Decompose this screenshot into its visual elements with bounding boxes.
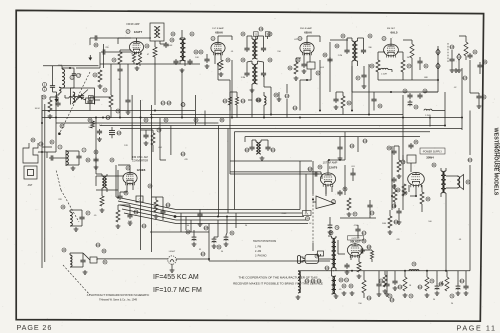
- circled ref 95: [274, 93, 278, 97]
- circled ref 66: [426, 197, 430, 201]
- circled ref 31: [296, 58, 300, 62]
- capacitor C13: [344, 48, 366, 54]
- svg-text:POWER SUPPLY: POWER SUPPLY: [423, 151, 442, 154]
- circled ref 15: [112, 58, 116, 62]
- oscillator coil L4: [96, 174, 107, 188]
- svg-text:PAGE 11: PAGE 11: [457, 324, 497, 333]
- wire: bus y125: [100, 125, 445, 127]
- circled ref 103: [201, 252, 206, 256]
- wire: rail corner x218: [217, 126, 219, 217]
- wire: T1 down: [155, 41, 160, 47]
- label FM DET: [387, 28, 396, 30]
- wire: bus fan horizontal 2: [176, 212, 302, 214]
- svg-text:C: C: [139, 197, 141, 201]
- electrolytic C22: [186, 230, 196, 241]
- filter choke L8: [409, 270, 419, 271]
- resistor R10 V7 cathode: [357, 262, 361, 272]
- junction dot 5: [181, 117, 183, 119]
- wire: bus y117: [42, 117, 462, 119]
- AM IF transformer T8: [256, 142, 261, 154]
- wire: V5 grid left: [96, 176, 124, 186]
- resistor R16: [425, 277, 429, 291]
- wire: drop x227: [226, 217, 228, 234]
- wire: left col to bus: [55, 123, 57, 152]
- wire: right edge drop: [470, 93, 479, 104]
- circled ref 27: [268, 32, 272, 36]
- svg-text:FM OSC. AM: FM OSC. AM: [132, 155, 147, 159]
- circled ref 131: [317, 279, 322, 283]
- circled ref 86: [220, 118, 224, 122]
- phono plug: [298, 256, 306, 264]
- wire: left column x56: [55, 95, 57, 123]
- circled ref 117: [362, 231, 367, 235]
- ground at T6: [334, 294, 339, 298]
- wire: T2 tops: [180, 30, 185, 40]
- wire: B+ choke bus y271: [298, 270, 470, 272]
- wire: x392 col: [391, 146, 393, 210]
- ground at C46: [128, 221, 133, 225]
- ground at C32: [456, 291, 461, 295]
- wire: rail y131.8: [234, 131, 430, 133]
- electrolytic C24: [224, 231, 234, 241]
- wire: C58 leads: [451, 50, 453, 68]
- resistor R23: [341, 96, 345, 108]
- wire: V6 plate up: [328, 160, 345, 172]
- svg-text:1M: 1M: [407, 57, 410, 59]
- junction dot 13: [429, 117, 431, 119]
- wire: B+ bus y110: [42, 110, 195, 112]
- wire: R35 bot: [371, 259, 373, 262]
- wire: ant to loop: [55, 150, 66, 166]
- wire: C61 leads: [352, 168, 354, 181]
- wire: bus y123: [56, 122, 218, 124]
- wire: L12 leads: [378, 70, 392, 73]
- junction dot gang: [58, 132, 61, 135]
- capacitor C20: [79, 211, 90, 221]
- value label .02 #28: [309, 223, 313, 225]
- value label 20 #26: [245, 225, 248, 227]
- resistor R28: [228, 97, 231, 105]
- label FM RF AMP: [126, 23, 139, 26]
- circled ref 142: [256, 98, 261, 102]
- FM antenna coil assembly: [71, 88, 95, 105]
- output transformer T7: [441, 171, 446, 193]
- capacitor C43: [477, 60, 487, 69]
- capacitor C59: [337, 145, 342, 151]
- value label 470 #36: [396, 239, 400, 241]
- wire: bus fan diagonal 1: [116, 197, 176, 210]
- wire: mid column x151: [151, 105, 153, 252]
- wire: x445 top col: [444, 111, 446, 127]
- junction dot 35: [217, 216, 219, 218]
- wire: x271 drop: [270, 87, 272, 115]
- svg-text:6BA6: 6BA6: [304, 31, 312, 35]
- capacitor C46: [127, 213, 132, 219]
- circled ref 25: [226, 58, 230, 62]
- svg-text:IF=10.7 MC FM: IF=10.7 MC FM: [153, 287, 202, 294]
- resistor R7: [401, 60, 405, 72]
- label 50L6GT V7: [350, 239, 366, 243]
- capacitor C54: [97, 129, 102, 135]
- circled ref 74: [450, 294, 454, 298]
- dashed switch link: [312, 194, 314, 243]
- note: cooperation text: [233, 276, 323, 286]
- wire: V5 bottom leads: [120, 184, 133, 194]
- circled ref 58: [306, 217, 310, 221]
- wire: bottom ladder tops: [385, 271, 466, 284]
- junction dot 24: [312, 199, 314, 201]
- oscillator coil L5: [70, 212, 72, 226]
- junction dot 14: [444, 125, 446, 127]
- junction dot 30: [263, 117, 265, 119]
- ground at R10: [357, 274, 362, 278]
- wire: x252 to bus: [251, 100, 253, 118]
- resistor R20: [151, 133, 155, 145]
- circled ref 127: [161, 101, 166, 105]
- label 1ST FM IF AMP: [212, 27, 224, 30]
- ground at A2: [457, 68, 462, 72]
- boxed part C7A: [136, 196, 143, 202]
- value label 50 #40: [221, 251, 224, 253]
- wire: x230 col mid: [229, 80, 231, 174]
- resistor R3 cathode: [118, 52, 122, 64]
- vertical title: WESTINGHOUSE MODELS: [492, 128, 498, 196]
- ground at C58: [450, 68, 455, 72]
- wire: V6 cathode: [326, 186, 332, 194]
- circled ref 132: [367, 296, 372, 300]
- ground at T8: [260, 156, 265, 160]
- circled ref 116: [394, 220, 399, 224]
- resistor R8 osc: [100, 196, 104, 206]
- wire: bus fan horizontal 5: [176, 223, 308, 225]
- wire: x218 col: [218, 64, 230, 80]
- capacitor C11 V3: [301, 62, 306, 68]
- junction dot 29: [95, 117, 97, 119]
- wire: drop x218: [217, 220, 219, 237]
- junction dot 27: [415, 195, 417, 197]
- wire: x470 col: [469, 60, 471, 93]
- wire: R22 leads: [459, 36, 466, 60]
- ground at C57: [397, 220, 402, 224]
- resistor R14: [383, 275, 387, 287]
- capacitor C40: [417, 57, 422, 70]
- ground at C24: [224, 242, 229, 246]
- wire: rail corner x245: [244, 137, 246, 142]
- capacitor C34: [125, 98, 130, 104]
- svg-text:THE COOPERATION OF THE MANUFAC: THE COOPERATION OF THE MANUFACTURER OF T…: [238, 276, 317, 280]
- svg-text:35W4: 35W4: [426, 156, 434, 160]
- IF transformer T1 can: [150, 23, 164, 41]
- capacitor C17 right edge: [476, 94, 486, 100]
- ground at C34: [126, 110, 131, 114]
- circled ref 124: [181, 152, 186, 156]
- label 6AL5 V4: [382, 31, 398, 41]
- wire: det out y161: [230, 160, 312, 162]
- wire: T3 top feeds: [256, 36, 268, 39]
- capacitor C45: [323, 53, 333, 63]
- resistor R15: [403, 277, 407, 291]
- junction dot 31: [151, 117, 153, 119]
- ground at C26: [345, 270, 350, 274]
- ground at R27: [388, 230, 393, 234]
- circled ref 105: [204, 226, 209, 230]
- value label 3.3M #9: [241, 77, 246, 79]
- capacitor C30: [392, 279, 397, 285]
- circled ref 46: [148, 184, 152, 188]
- circled ref 71: [388, 294, 392, 298]
- wire: x103 col: [103, 44, 105, 68]
- wire: AVC bus y64: [100, 63, 200, 65]
- resistor R5 V2 cathode: [219, 60, 223, 70]
- circled ref 92: [347, 101, 351, 105]
- ground at R25: [116, 224, 121, 228]
- wire: V6 grid: [321, 174, 323, 179]
- circled ref 93: [378, 104, 382, 108]
- junction dot 20: [306, 79, 308, 81]
- circled ref 37: [407, 64, 411, 68]
- wire: x352 det drop: [351, 66, 353, 92]
- wire: T4 bottom drop: [248, 84, 252, 100]
- label 35W4 V8: [426, 156, 434, 160]
- ground at C41: [334, 105, 339, 109]
- value label 47 #5: [147, 54, 150, 56]
- capacitor C18: [467, 50, 477, 59]
- svg-text:ANT: ANT: [28, 184, 33, 187]
- circled ref 67: [403, 191, 407, 195]
- capacitor C58: [449, 57, 454, 63]
- wire: x470 col long: [469, 111, 471, 156]
- value label 220 #3: [105, 47, 109, 49]
- wire: bus fan diagonal 2: [118, 201, 176, 213]
- ground pair at T6 sec: [342, 291, 355, 295]
- resistor R19: [48, 100, 52, 112]
- wire: T8 leads: [252, 140, 268, 145]
- down arrow at x90: [88, 55, 92, 61]
- circled ref 94: [288, 66, 292, 70]
- ground at L9: [277, 97, 282, 101]
- wire: C22 top: [194, 230, 227, 237]
- wire: V8 out: [410, 196, 422, 212]
- capacitor C44: [361, 66, 366, 84]
- wire: T1 bottom to bus: [154, 57, 156, 64]
- wire: drop x236: [235, 213, 237, 228]
- wire: x205 col: [204, 111, 206, 126]
- wire: x462 col low: [461, 123, 463, 130]
- circled ref 130: [311, 279, 316, 283]
- ground at C11: [302, 69, 307, 73]
- circled ref 32: [316, 71, 320, 75]
- circled ref 121: [241, 99, 246, 103]
- electrolytic C16: [408, 100, 413, 106]
- svg-text:10M: 10M: [382, 223, 386, 225]
- label 10M: [35, 108, 40, 110]
- wire: R26 cluster: [152, 197, 164, 220]
- circled ref 128: [167, 101, 172, 105]
- wire: T5 top feed: [330, 39, 348, 41]
- resistor R27: [388, 216, 392, 228]
- coil L9: [264, 96, 266, 105]
- wire: x320 col: [319, 60, 321, 111]
- ground at C59: [338, 156, 343, 160]
- wire: V3 leads down: [304, 54, 310, 62]
- resistor R13: [402, 184, 406, 196]
- value label 1K #33: [409, 285, 412, 287]
- IF transformer T3: [252, 39, 258, 59]
- resistor R29: [235, 97, 238, 105]
- wire: audio takeoff: [424, 70, 438, 92]
- capacitor C5: [117, 67, 122, 73]
- junction dot 37: [426, 270, 428, 272]
- svg-text:2.2UH: 2.2UH: [381, 74, 387, 76]
- wire: y218 link: [340, 217, 376, 219]
- tube V6 12AT6: [320, 173, 335, 187]
- capacitor C27: [408, 140, 418, 149]
- ground at R26: [154, 214, 159, 218]
- wire: det rc: [403, 46, 438, 80]
- value label 470K #29: [354, 225, 359, 227]
- circled ref 77: [103, 88, 107, 92]
- wire: V5 plate up: [118, 165, 130, 172]
- wire: C42 leads: [373, 92, 375, 111]
- wire: phono wiring: [313, 243, 332, 259]
- circled ref 40: [414, 105, 418, 109]
- ground at loop: [71, 166, 76, 170]
- ground at R15: [403, 293, 408, 297]
- ground at R9: [347, 212, 352, 216]
- circled ref 107: [370, 211, 375, 215]
- wire: L2 top: [61, 66, 63, 69]
- wire: R21 leads: [403, 40, 412, 80]
- capacitor C28: [387, 146, 397, 155]
- wire: det line y92: [352, 91, 438, 93]
- test diamond A1: [436, 49, 440, 55]
- circled ref 20: [171, 32, 175, 36]
- svg-text:PAGE 26: PAGE 26: [17, 323, 53, 332]
- circled ref 87: [60, 124, 64, 128]
- svg-text:10 M: 10 M: [35, 108, 40, 110]
- output transformer T6 secondary: [332, 276, 337, 294]
- boxed part Z1: [86, 98, 95, 104]
- capacitor C35: [55, 101, 60, 107]
- tube V3 6BA6: [300, 42, 314, 55]
- wire: L6 wiring: [70, 253, 97, 267]
- circled ref 72: [409, 294, 413, 298]
- label 6BA6 V2: [211, 31, 223, 41]
- wire: antenna lead: [38, 147, 56, 158]
- wire: right column x403: [402, 95, 404, 210]
- capacitor C4 grid: [101, 49, 107, 54]
- value label .02 #17: [454, 87, 458, 89]
- wire: R25 cluster: [118, 205, 130, 213]
- wire: L5 wiring: [70, 210, 82, 226]
- wire: C60 top: [330, 217, 339, 230]
- svg-text:A: A: [437, 50, 439, 54]
- ground at C54: [97, 137, 102, 141]
- selenium rectifier BR: [407, 155, 416, 172]
- dial lamp with dashed rays: [168, 256, 176, 264]
- wire: fan drops: [181, 213, 191, 232]
- svg-text:12AT7: 12AT7: [134, 30, 143, 34]
- circled ref 141: [363, 139, 368, 143]
- circled ref 113: [439, 282, 444, 286]
- capacitor C9: [244, 46, 266, 52]
- wire: C50 leads: [369, 200, 371, 218]
- ground at C60: [328, 230, 333, 234]
- wire: grid to tube: [107, 51, 131, 53]
- value label 100 #37: [428, 221, 432, 223]
- label 2ND FM IF: [300, 27, 313, 30]
- circled ref 51: [103, 260, 107, 264]
- wire: R24 top: [296, 58, 301, 62]
- wire: pot wiring: [313, 161, 326, 202]
- circled ref 26: [241, 32, 245, 36]
- ground at C31: [435, 291, 440, 295]
- wire: x287 drop: [286, 84, 288, 118]
- svg-text:IF=455 KC AM: IF=455 KC AM: [153, 274, 199, 281]
- value label .05 #2: [79, 74, 83, 76]
- circled ref 104: [142, 224, 147, 228]
- wire: C34 leads: [127, 64, 129, 110]
- wire: V1 cathode down: [134, 52, 140, 54]
- resistor R18: [109, 95, 113, 107]
- circled ref 61: [342, 284, 353, 288]
- value label .05 #23: [94, 215, 98, 217]
- circled ref 143: [285, 94, 290, 98]
- label ANT: [28, 184, 33, 187]
- circled ref 57: [353, 212, 357, 216]
- wire: drop x300: [299, 161, 301, 210]
- coil L12 2.2uH: [381, 68, 389, 75]
- wire: x120 drop: [119, 73, 121, 118]
- coil L6: [70, 255, 72, 267]
- circled ref 29: [268, 58, 272, 62]
- wire: T7 leads: [441, 168, 446, 197]
- capacitor C49 grid: [313, 171, 319, 176]
- circled ref 129: [305, 279, 310, 283]
- junction dot 10: [351, 110, 353, 112]
- capacitor C50: [367, 203, 372, 209]
- tone pot R17: [441, 277, 449, 291]
- circled ref 137: [463, 76, 468, 80]
- value label 250K #27: [282, 213, 287, 215]
- svg-text:FM RF AMP: FM RF AMP: [126, 23, 139, 26]
- speaker voice coil L7: [457, 176, 460, 188]
- svg-text:CONVERTER: CONVERTER: [132, 159, 148, 163]
- ground at C29: [392, 184, 397, 188]
- tube V5 12BE6: [123, 172, 137, 185]
- wire: v1 grid path: [90, 38, 93, 45]
- wire: y66 input line: [43, 65, 99, 67]
- boxed label AUDIO OUTPUT: [348, 236, 364, 240]
- junction dot 23: [328, 159, 330, 161]
- volume control pot: [316, 196, 336, 209]
- circled ref 81: [50, 140, 54, 144]
- circled ref 33: [341, 34, 345, 38]
- note: IF=455 KC AM: [153, 274, 199, 281]
- phono jack housing: [305, 251, 324, 264]
- wire: right drop x445: [432, 92, 445, 111]
- wire: R3-C5: [119, 64, 121, 67]
- capacitor C6: [160, 42, 169, 48]
- circled ref 144: [293, 106, 298, 110]
- circled ref 97: [356, 76, 360, 80]
- junction dot 22: [437, 79, 439, 81]
- circled ref 139: [259, 27, 264, 31]
- circled ref 45: [110, 158, 114, 162]
- dashed lead to diamond: [447, 43, 449, 62]
- circled ref 100: [134, 210, 139, 214]
- junction dot 1: [55, 117, 57, 119]
